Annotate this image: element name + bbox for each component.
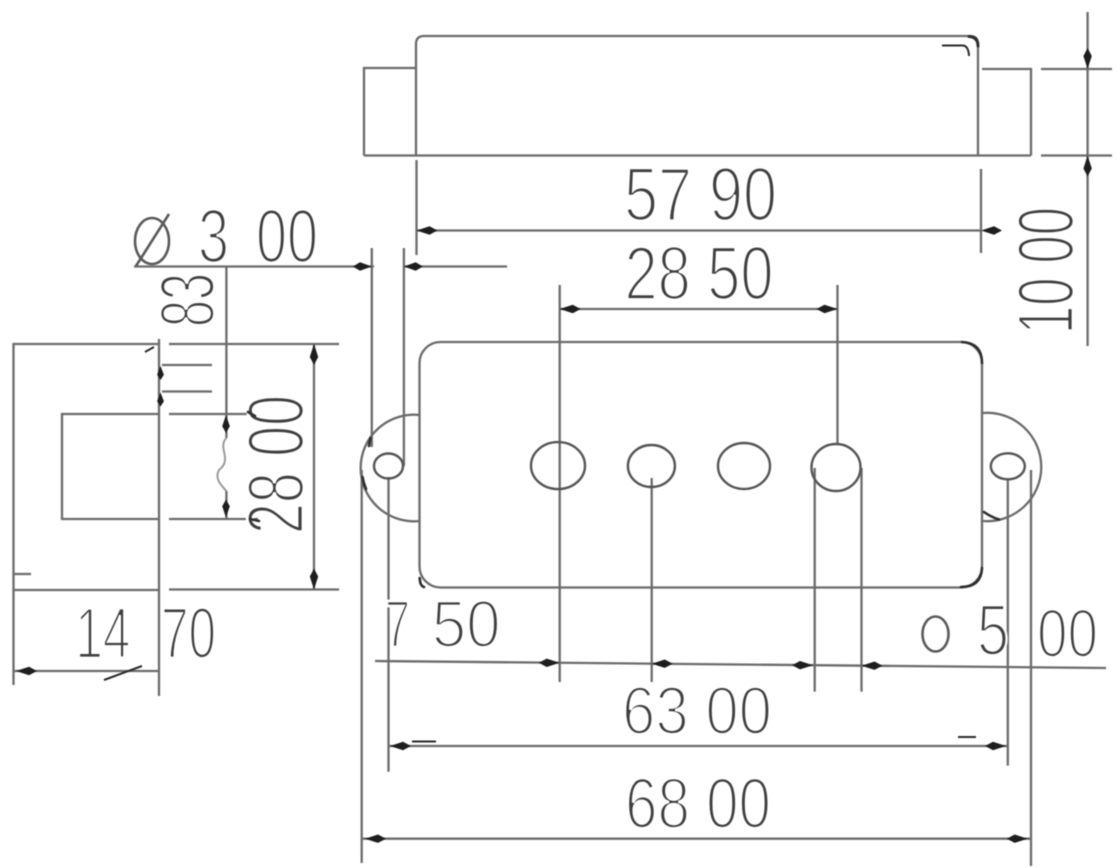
svg-text:57 90: 57 90 — [624, 153, 777, 238]
svg-text:5: 5 — [977, 591, 1009, 671]
svg-text:00: 00 — [256, 195, 318, 280]
svg-text:10 00: 10 00 — [1001, 207, 1090, 334]
svg-text:63 00: 63 00 — [622, 673, 772, 749]
svg-text:68 00: 68 00 — [625, 765, 771, 844]
svg-text:14: 14 — [75, 594, 130, 674]
svg-text:83: 83 — [145, 273, 231, 327]
svg-text:50: 50 — [432, 587, 501, 662]
svg-text:28 00: 28 00 — [231, 395, 320, 534]
svg-text:00: 00 — [1037, 595, 1098, 672]
svg-text:7: 7 — [385, 587, 410, 662]
svg-text:28 50: 28 50 — [625, 232, 774, 317]
svg-text:3: 3 — [198, 195, 229, 280]
svg-text:70: 70 — [161, 594, 216, 674]
